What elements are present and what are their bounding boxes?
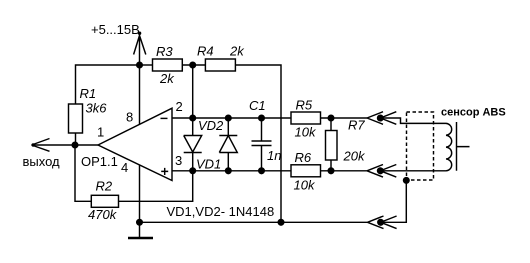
svg-text:R2: R2 [96, 179, 113, 194]
resistor R6 [291, 150, 321, 193]
node output junction [72, 142, 78, 148]
svg-text:10k: 10k [294, 178, 316, 193]
svg-text:R6: R6 [295, 150, 312, 165]
pin 4 wire [139, 165, 141, 223]
node ground junction [137, 220, 143, 226]
node VD1 bottom [226, 168, 232, 174]
svg-text:выход: выход [23, 154, 61, 169]
resistor R5 [291, 98, 321, 140]
svg-text:1: 1 [97, 125, 104, 140]
node B (R5/R7 top) [328, 115, 334, 121]
wire connector middle to coil [380, 170, 446, 172]
svg-text:VD2: VD2 [198, 118, 224, 133]
diode VD2 [184, 118, 224, 171]
svg-text:VD1,VD2- 1N4148: VD1,VD2- 1N4148 [167, 204, 275, 219]
resistor R3 [153, 44, 183, 86]
svg-text:OP1.1: OP1.1 [81, 154, 118, 169]
sensor core [457, 122, 470, 171]
svg-text:R1: R1 [80, 86, 97, 101]
svg-text:2k: 2k [229, 44, 245, 59]
wire top rail left (power node to R1 top corner) [76, 65, 140, 104]
svg-text:R3: R3 [156, 44, 173, 59]
svg-text:+5...15В: +5...15В [91, 22, 140, 37]
wire connector top to coil [380, 118, 446, 123]
svg-text:R7: R7 [348, 118, 365, 133]
op-amp OP1.1 [81, 108, 172, 180]
resistor R2 [88, 179, 119, 223]
node VD2 bottom [190, 168, 196, 174]
output arrow (vyhod) [32, 139, 50, 152]
wire node A down to inverting rail [192, 65, 194, 118]
wire top rail right (power node to R3) [140, 64, 153, 66]
svg-text:VD1: VD1 [196, 156, 221, 171]
node A (R3/R4 junction) [190, 62, 196, 68]
node power junction [137, 62, 143, 68]
diode VD1 [196, 118, 237, 171]
connector bottom (contact pair) [368, 216, 397, 229]
wire R3 to node A [182, 64, 205, 66]
wire R4 right to ground drop [235, 65, 281, 222]
svg-text:R5: R5 [296, 98, 313, 113]
svg-text:3k6: 3k6 [86, 101, 108, 116]
resistor R7 [326, 118, 366, 171]
node C1 top [259, 115, 265, 121]
wire R6 to node C [321, 170, 368, 172]
node C (R6/R7 bottom) [328, 168, 334, 174]
svg-text:C1: C1 [249, 98, 266, 113]
sensor shield dashed box [407, 112, 434, 180]
connector top (contact pair) [367, 112, 396, 125]
svg-text:470k: 470k [88, 207, 118, 222]
wire R1 bottom to output node [75, 133, 77, 145]
wire R5 to node B [321, 117, 368, 119]
node R4 ground junction [278, 220, 284, 226]
wire R2 right up to plus rail [119, 171, 193, 202]
svg-text:8: 8 [126, 110, 133, 125]
wire output node down to R2 [75, 145, 91, 201]
op-amp plus sign [161, 168, 168, 175]
svg-text:10k: 10k [295, 125, 317, 140]
node VD1 top [226, 115, 232, 121]
svg-text:1n: 1n [267, 148, 281, 163]
inductor L sensor coil [446, 123, 452, 170]
resistor R1 [69, 86, 108, 133]
op-amp minus sign [161, 117, 168, 119]
power arrow symbol [134, 32, 146, 66]
resistor R4 [197, 44, 245, 72]
svg-text:3: 3 [175, 153, 182, 168]
wire inverting rail (pin2 to R5) [172, 117, 291, 119]
output wire [32, 144, 99, 146]
node VD2 top [190, 115, 196, 121]
connector middle (contact pair) [367, 165, 396, 178]
svg-text:4: 4 [121, 160, 128, 175]
svg-text:20k: 20k [343, 149, 366, 164]
svg-text:R4: R4 [197, 44, 214, 59]
ground symbol [128, 222, 153, 238]
wire connector bottom to shield [381, 182, 407, 222]
svg-text:2k: 2k [159, 71, 175, 86]
ground rail wire [140, 221, 368, 223]
svg-text:сенсор ABS: сенсор ABS [441, 107, 506, 119]
node shield junction [404, 178, 410, 184]
svg-text:2: 2 [176, 99, 183, 114]
pin 8 wire [139, 65, 141, 124]
capacitor C1 [249, 98, 281, 171]
node C1 bottom [259, 168, 265, 174]
wire non-inverting rail (pin3 to R6) [172, 170, 291, 172]
